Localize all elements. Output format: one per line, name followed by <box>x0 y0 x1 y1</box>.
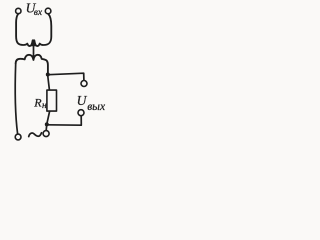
wire: bottom junction stem to AC terminal <box>45 125 48 130</box>
winding W1 (upper, input) <box>16 14 51 46</box>
wire: resistor to bottom junction <box>47 111 50 123</box>
terminal: output bottom <box>78 110 84 116</box>
terminal: output top <box>81 81 87 87</box>
junction dot (bottom) <box>45 122 49 126</box>
wire: junction to output top terminal <box>48 73 84 80</box>
background <box>0 0 130 143</box>
winding W2 (lower, output) <box>16 55 48 73</box>
svg-text:вых: вых <box>87 101 106 113</box>
svg-text:вх: вх <box>34 8 43 18</box>
terminal: input top-right <box>45 8 51 14</box>
wire: bottom junction to output bottom terminal <box>47 116 81 125</box>
svg-text:н: н <box>42 101 47 111</box>
wiper arrow (tap between windings) <box>33 41 35 60</box>
terminal: input top-left <box>16 8 21 13</box>
svg-text:R: R <box>33 95 42 109</box>
svg-text:U: U <box>77 93 88 108</box>
wire: junction down to resistor <box>48 76 50 90</box>
resistor Rн body <box>47 90 57 111</box>
AC source symbol ~ <box>29 133 42 137</box>
terminal: AC supply left <box>15 134 21 140</box>
junction dot (winding / load) <box>46 73 50 77</box>
terminal: AC supply right <box>43 131 49 137</box>
wire: lower-left rail (winding to AC terminal) <box>15 63 17 134</box>
